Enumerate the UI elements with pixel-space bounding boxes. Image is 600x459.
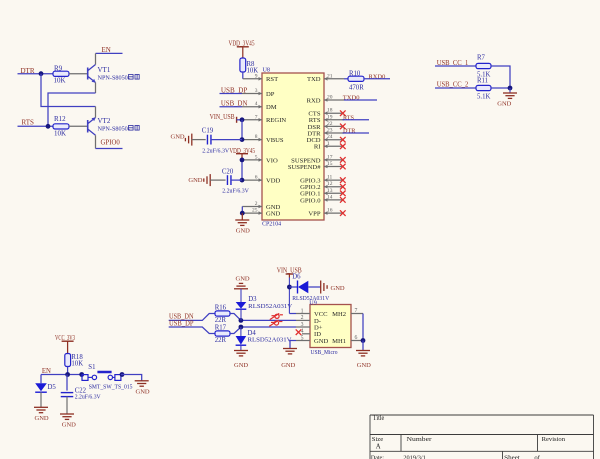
- svg-text:19: 19: [327, 114, 333, 120]
- svg-text:13: 13: [327, 188, 333, 194]
- svg-text:GND: GND: [331, 285, 345, 292]
- svg-text:Date:: Date:: [371, 454, 384, 459]
- capacitor C19: [206, 135, 208, 145]
- wire R17 to D+ line: [230, 327, 296, 334]
- differential pair marker D+: [269, 320, 282, 326]
- svg-text:VBUS: VBUS: [266, 137, 284, 144]
- svg-text:GND: GND: [136, 388, 150, 395]
- svg-text:2: 2: [255, 201, 258, 207]
- wire GPIO0: [96, 148, 123, 150]
- svg-text:11: 11: [327, 175, 333, 181]
- resistor R10: [348, 76, 364, 81]
- pin 1 RI U8: [324, 145, 343, 147]
- wire EN line: [41, 374, 81, 376]
- capacitor C22: [66, 375, 68, 391]
- pin 13 GPIO.1 U8: [324, 192, 343, 194]
- svg-text:2019/3/1: 2019/3/1: [403, 454, 425, 459]
- svg-text:REGIN: REGIN: [266, 117, 286, 124]
- wire MH2 to MH1: [362, 314, 364, 341]
- pin 3 DP U8: [242, 93, 262, 95]
- wire R7 to gnd node: [491, 66, 510, 88]
- pin 15 SUSPEND# U8: [324, 166, 343, 168]
- svg-text:8: 8: [255, 134, 258, 140]
- svg-text:GPIO.0: GPIO.0: [300, 197, 321, 204]
- connector U9 USB_Micro body: [310, 305, 351, 348]
- wire C19 to VBUS: [211, 139, 242, 141]
- svg-text:S1: S1: [88, 364, 95, 371]
- svg-text:3: 3: [301, 322, 304, 328]
- svg-text:GND: GND: [35, 415, 49, 422]
- svg-text:CP2104: CP2104: [262, 221, 282, 228]
- pin 21 TXD U8: [324, 78, 344, 80]
- pin 2 GND U8: [242, 206, 262, 208]
- svg-text:R16: R16: [215, 304, 227, 311]
- svg-text:20: 20: [327, 95, 333, 101]
- svg-text:6: 6: [355, 335, 358, 341]
- pin 14 GPIO.0 U8: [324, 199, 343, 201]
- resistor R17: [215, 331, 230, 336]
- svg-text:Title: Title: [373, 415, 385, 422]
- no-connect X on pin 18: [340, 110, 346, 116]
- svg-text:25: 25: [252, 208, 258, 214]
- svg-text:Size: Size: [372, 436, 383, 443]
- pin 12 GPIO.2 U8: [324, 186, 343, 188]
- pin 1 wire VCC: [289, 313, 296, 315]
- differential pair marker D-: [270, 313, 283, 319]
- wire GND pins 2 and 25: [241, 207, 243, 214]
- svg-text:6: 6: [255, 175, 258, 181]
- svg-text:of: of: [534, 454, 540, 459]
- svg-text:22R: 22R: [215, 317, 227, 324]
- chip U8 CP2104 body: [262, 73, 324, 220]
- svg-text:GND: GND: [188, 177, 202, 184]
- svg-text:VT2: VT2: [98, 117, 111, 125]
- svg-text:17: 17: [327, 154, 333, 160]
- ground GND at U9 pin5: [283, 348, 297, 350]
- svg-text:Number: Number: [407, 436, 433, 443]
- wire R8 to RST: [242, 72, 244, 79]
- svg-text:5: 5: [255, 154, 258, 160]
- svg-text:GND: GND: [497, 101, 511, 108]
- node junction DTR: [39, 71, 44, 76]
- svg-text:RTS: RTS: [22, 119, 35, 127]
- svg-text:2: 2: [301, 315, 304, 321]
- svg-text:VIN_USB: VIN_USB: [210, 114, 235, 121]
- resistor R12: [53, 124, 69, 129]
- title block frame: [370, 415, 594, 459]
- svg-text:TXD: TXD: [307, 76, 321, 83]
- ground GND for CC: [509, 88, 511, 93]
- label SMD glyphs VT1: [129, 75, 140, 80]
- svg-text:15: 15: [327, 161, 333, 167]
- svg-text:18: 18: [327, 108, 333, 114]
- node junction VDD: [240, 178, 245, 183]
- svg-text:USB_DN: USB_DN: [169, 314, 194, 321]
- pin 6 MH1 U9: [351, 340, 363, 342]
- diode D4 RLSD52A031V: [240, 327, 242, 336]
- pin 18 CTS U8: [324, 112, 343, 114]
- pin 2 D- U9: [296, 319, 310, 321]
- pin 17 SUSPEND U8: [324, 159, 343, 161]
- wire S1 to gnd: [121, 375, 142, 381]
- svg-text:VDD: VDD: [266, 178, 281, 185]
- svg-text:GND: GND: [234, 362, 248, 369]
- svg-text:RLSD52A031V: RLSD52A031V: [248, 337, 292, 344]
- svg-text:D5: D5: [48, 384, 57, 391]
- pin 6 VDD U8: [242, 179, 262, 181]
- wire R11 to gnd node: [491, 87, 510, 89]
- svg-text:R12: R12: [54, 115, 66, 123]
- svg-text:GND: GND: [314, 338, 329, 345]
- resistor R7: [476, 63, 491, 68]
- svg-text:4: 4: [255, 101, 258, 107]
- wire VDD_3V45 to VIO and VDD: [241, 154, 243, 160]
- pin 4 ID U9: [302, 333, 310, 335]
- ground GND at D6: [320, 281, 322, 294]
- svg-text:C20: C20: [222, 169, 234, 176]
- pin 22 DSR U8: [324, 125, 343, 127]
- svg-text:Sheet: Sheet: [504, 454, 520, 459]
- svg-text:VIO: VIO: [266, 157, 278, 164]
- wire RTS: [18, 125, 54, 127]
- wire RTS right: [343, 119, 370, 121]
- wire USB_CC_1: [435, 65, 476, 67]
- wire DTR right: [343, 132, 370, 134]
- wire EN: [96, 52, 123, 54]
- svg-text:22R: 22R: [215, 337, 227, 344]
- svg-text:MH1: MH1: [332, 338, 346, 345]
- wire MH1 to ground: [362, 341, 364, 351]
- wire VIN_USB down to VCC: [288, 274, 290, 278]
- svg-text:RXD: RXD: [307, 97, 321, 104]
- wire USB_DN to R16: [169, 314, 215, 321]
- label SMD glyphs VT2: [129, 126, 140, 131]
- pin 11 GPIO.3 U8: [324, 179, 343, 181]
- wire gnd to C19: [192, 139, 206, 141]
- svg-text:DM: DM: [266, 104, 277, 111]
- pin 7 REGIN U8: [242, 119, 262, 121]
- pin 16 VPP U8: [324, 212, 343, 214]
- svg-text:R10: R10: [349, 70, 361, 77]
- wire DTR junction to VT2 emitter: [41, 74, 96, 107]
- node junction MH1: [361, 338, 366, 343]
- svg-text:A: A: [376, 444, 381, 451]
- svg-text:23: 23: [327, 128, 333, 134]
- no-connect X on pin 24: [340, 137, 346, 143]
- wire RXD0: [364, 78, 390, 80]
- svg-text:2.2uF/6.3V: 2.2uF/6.3V: [202, 147, 229, 154]
- resistor R18: [65, 354, 71, 367]
- diode D6 RLSD52A031V: [289, 286, 297, 288]
- svg-text:GPIO0: GPIO0: [101, 139, 121, 147]
- svg-text:GND: GND: [281, 362, 295, 369]
- node junction D4: [239, 325, 244, 330]
- wire VT1 emitter to RTS junction: [48, 93, 96, 126]
- pin 5 VIO U8: [242, 159, 262, 161]
- node junction VIO: [240, 158, 245, 163]
- ground GND at S1: [135, 380, 149, 382]
- pin 20 RXD U8: [324, 99, 344, 101]
- svg-text:14: 14: [327, 194, 333, 200]
- wire USB_DP to R17: [169, 327, 215, 334]
- svg-text:22: 22: [327, 121, 333, 127]
- svg-text:SMT_SW_TS_015: SMT_SW_TS_015: [89, 383, 133, 390]
- no-connect X on pin 22: [340, 124, 346, 130]
- resistor R16: [215, 311, 230, 316]
- svg-text:R9: R9: [54, 65, 63, 73]
- svg-text:21: 21: [327, 73, 333, 79]
- node junction GND25: [240, 211, 245, 216]
- pin 23 DTR U8: [324, 132, 344, 134]
- no-connect X on pin 4 ID: [296, 329, 302, 335]
- no-connect X on pin 15: [340, 164, 346, 170]
- wire TXD0: [344, 99, 377, 101]
- ground GND below D4: [234, 350, 248, 352]
- svg-text:12: 12: [327, 181, 333, 187]
- svg-text:Revision: Revision: [542, 436, 566, 443]
- svg-text:RST: RST: [266, 76, 278, 83]
- wire VIN_USB to REGIN: [237, 119, 242, 121]
- capacitor C20: [226, 175, 228, 185]
- ground GND at C22: [60, 413, 74, 415]
- svg-text:USB_Micro: USB_Micro: [311, 349, 339, 356]
- svg-text:U8: U8: [263, 67, 271, 74]
- svg-text:R7: R7: [477, 54, 486, 61]
- no-connect X on pin 14: [340, 197, 346, 203]
- svg-text:3: 3: [255, 88, 258, 94]
- wire R12 to VT2 base: [69, 125, 88, 127]
- no-connect X on pin 1: [340, 144, 346, 150]
- diode D3 RLSD52A031V: [240, 289, 242, 302]
- resistor R8: [240, 58, 246, 72]
- resistor R11: [476, 85, 491, 90]
- transistor VT1: [87, 68, 89, 80]
- svg-text:GND: GND: [171, 134, 185, 141]
- node junction REGIN: [240, 117, 245, 122]
- svg-text:MH2: MH2: [332, 311, 346, 318]
- no-connect X on pin 11: [340, 177, 346, 183]
- pin 19 RTS U8: [324, 119, 344, 121]
- transistor VT2: [87, 120, 89, 133]
- node junction CC gnd: [508, 86, 513, 91]
- svg-text:GND: GND: [266, 211, 281, 218]
- node junction D3: [239, 318, 244, 323]
- pin 24 DCD U8: [324, 139, 343, 141]
- svg-text:GND: GND: [357, 362, 371, 369]
- resistor R9: [53, 71, 69, 76]
- pin 3 D+ U9: [296, 326, 310, 328]
- no-connect X on pin 17: [340, 157, 346, 163]
- svg-text:GND: GND: [236, 276, 250, 283]
- pin 7 MH2 U9: [351, 313, 363, 315]
- svg-text:7: 7: [355, 308, 358, 314]
- svg-text:10K: 10K: [71, 361, 83, 368]
- no-connect X on pin 13: [340, 191, 346, 197]
- svg-text:VT1: VT1: [98, 66, 111, 74]
- svg-text:GND: GND: [236, 227, 250, 234]
- wire gnd to C20: [210, 179, 225, 181]
- wire USB_DP: [220, 93, 243, 95]
- svg-text:RLSD52A031V: RLSD52A031V: [248, 303, 292, 310]
- no-connect X on pin 16: [340, 210, 346, 216]
- svg-text:24: 24: [327, 134, 333, 140]
- svg-text:RI: RI: [314, 144, 321, 151]
- node junction D6: [287, 285, 292, 290]
- wire C20 to VDD: [231, 179, 242, 181]
- svg-text:NPN-S8050-: NPN-S8050-: [98, 75, 130, 82]
- ground GND at MH1: [356, 350, 370, 352]
- ground GND below U8 GND pins: [241, 213, 243, 220]
- diode D5: [40, 375, 42, 384]
- node junction RTS: [46, 124, 51, 129]
- node junction EN: [65, 372, 70, 377]
- ground GND at D5: [34, 406, 48, 408]
- svg-text:10K: 10K: [54, 76, 66, 84]
- wire R18 to EN line: [67, 367, 69, 375]
- svg-text:D6: D6: [292, 274, 301, 281]
- svg-text:2.2uF/6.3V: 2.2uF/6.3V: [75, 394, 101, 401]
- no-connect X on pin 12: [340, 184, 346, 190]
- svg-text:C19: C19: [202, 128, 214, 135]
- node junction VBUS: [240, 137, 245, 142]
- svg-text:16: 16: [327, 208, 333, 214]
- pin 4 DM U8: [242, 106, 262, 108]
- wire R9 to VT1 base: [69, 73, 88, 75]
- svg-text:DP: DP: [266, 91, 275, 98]
- svg-text:9: 9: [255, 73, 258, 79]
- pin 5 wire GND to ground: [296, 340, 310, 342]
- svg-text:SUSPEND#: SUSPEND#: [288, 164, 321, 171]
- wire TXD to R10: [344, 78, 348, 80]
- svg-text:U9: U9: [309, 299, 317, 306]
- svg-text:2.2uF/6.3V: 2.2uF/6.3V: [222, 187, 249, 194]
- svg-text:470R: 470R: [349, 85, 364, 92]
- pin 9 RST U8: [243, 78, 262, 80]
- svg-text:R11: R11: [477, 77, 488, 84]
- wire R16 to D- line: [230, 314, 296, 321]
- pin 8 VBUS U8: [242, 139, 262, 141]
- wire USB_DN: [220, 106, 243, 108]
- svg-text:VPP: VPP: [308, 211, 320, 218]
- svg-text:10K: 10K: [54, 129, 66, 137]
- wire DTR: [18, 73, 54, 75]
- svg-text:GND: GND: [62, 422, 76, 429]
- svg-text:7: 7: [255, 114, 258, 120]
- wire REGIN-VBUS vertical: [241, 120, 243, 140]
- svg-text:NPN-S8050-: NPN-S8050-: [98, 126, 130, 133]
- svg-text:5.1K: 5.1K: [477, 94, 490, 101]
- pin 25 GND U8: [242, 212, 262, 214]
- wire USB_CC_2: [435, 87, 476, 89]
- svg-text:R17: R17: [215, 324, 227, 331]
